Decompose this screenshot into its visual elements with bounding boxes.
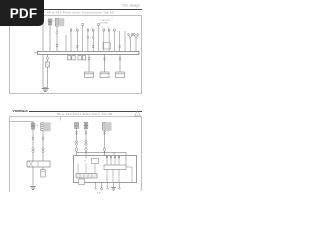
svg-text:Oct. design: Oct. design <box>122 4 140 8</box>
svg-text:3: 3 <box>86 27 87 29</box>
svg-text:4: 4 <box>92 27 93 29</box>
svg-text:6: 6 <box>108 27 109 29</box>
svg-text:5: 5 <box>102 27 103 29</box>
svg-text:1: 1 <box>70 27 71 29</box>
svg-text:80 w 013 Prius down Connecti: 80 w 013 Prius down Connections Tok 40 <box>47 11 114 15</box>
svg-text:2: 2 <box>76 27 77 29</box>
svg-text:80 w 013 Prius down Conn To: 80 w 013 Prius down Conn Tok 40 <box>57 112 112 116</box>
svg-text:7: 7 <box>113 27 114 29</box>
svg-text:V TO15 Prius ll: V TO15 Prius ll <box>13 109 28 113</box>
svg-text:B CONN: B CONN <box>100 23 108 25</box>
svg-text:PDF: PDF <box>10 6 38 21</box>
